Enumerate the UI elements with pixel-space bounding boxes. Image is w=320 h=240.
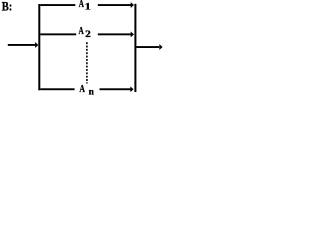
- branch An arrowhead: [130, 86, 133, 92]
- output arrowhead: [159, 44, 162, 50]
- right bus wire: [134, 4, 136, 92]
- svg-text:A: A: [79, 84, 85, 95]
- left bus wire: [38, 4, 40, 90]
- svg-text:A: A: [79, 26, 85, 37]
- svg-text:A: A: [79, 0, 85, 10]
- svg-text:1: 1: [85, 2, 92, 12]
- output arrow wire: [136, 46, 159, 48]
- branch A1 wire right segment: [98, 4, 131, 6]
- input arrowhead: [35, 42, 38, 48]
- input arrow wire: [8, 44, 36, 46]
- svg-text:2: 2: [85, 29, 91, 39]
- branch A1 wire left segment: [40, 4, 75, 6]
- svg-text:B:: B:: [2, 0, 13, 13]
- branch A2 arrowhead: [131, 31, 134, 37]
- branch An wire right segment: [100, 88, 132, 90]
- branch A1 arrowhead: [131, 2, 134, 8]
- ellipsis dotted wire: [86, 42, 88, 83]
- branch A2 wire right segment: [98, 33, 131, 35]
- branch A2 wire left segment: [40, 33, 76, 35]
- svg-text:n: n: [89, 88, 95, 98]
- branch An wire left segment: [40, 88, 74, 90]
